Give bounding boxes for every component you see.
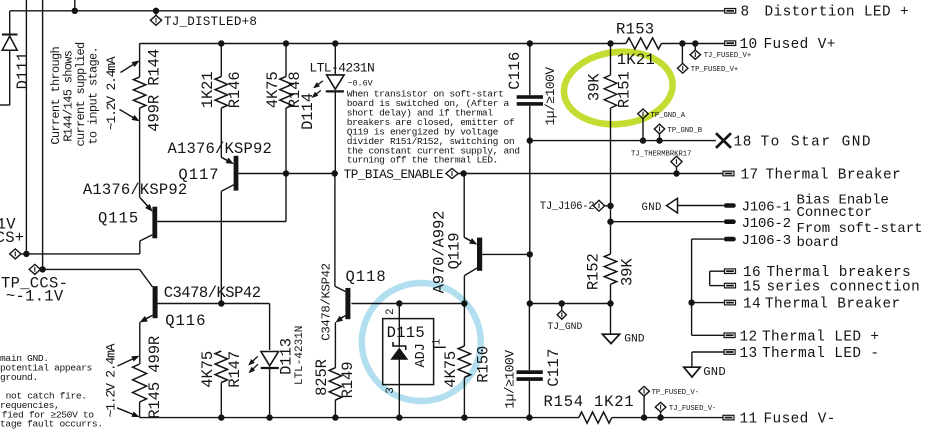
label R151 ref (615, 71, 633, 108)
resistor R144 (133, 44, 145, 198)
svg-text:Fused V-: Fused V- (764, 412, 836, 428)
label TJ_FUSED_V- (669, 405, 716, 413)
wire pin 14 net (692, 302, 725, 304)
resistor R145 (133, 364, 147, 418)
resistor R151 (604, 44, 616, 255)
junction D115 pin3 bottom (396, 414, 402, 420)
label R144 value+ref 499R R144 (146, 49, 164, 132)
test point TP_CCS- diamond (29, 264, 40, 274)
diode D111 (2, 11, 18, 105)
label C116 ref (506, 51, 524, 89)
junction D115 pin2 (396, 300, 402, 306)
label pin 16 Thermal breakers (743, 265, 911, 281)
label R149 ref (339, 362, 357, 399)
svg-text:CS+: CS+ (0, 229, 24, 247)
note paragraph bottom-left cut (0, 353, 103, 430)
svg-text:Thermal LED -: Thermal LED - (762, 346, 879, 362)
label D115 pin 3 (385, 387, 397, 394)
svg-text:GND: GND (642, 202, 662, 214)
label C117 value 1u/>=100V (503, 350, 518, 409)
wire D115 pin1 stub (434, 346, 446, 348)
test point TP_GND_B (654, 124, 664, 134)
svg-text:17: 17 (741, 167, 759, 183)
test point TJ_FUSED_V- (655, 402, 666, 412)
note text current through column1 (49, 47, 63, 145)
svg-text:825R: 825R (313, 359, 331, 396)
svg-text:To Star GND: To Star GND (761, 134, 873, 150)
connector pin 18 star symbol (716, 133, 731, 148)
junction TJ_DISTLED+8 stem (153, 8, 159, 16)
label TJ_J106-2 (540, 201, 595, 213)
junction C116/C117 mid (527, 300, 533, 306)
wire R152 to gnd (610, 304, 612, 335)
label Q118 ref (346, 268, 387, 286)
label R147 ref (226, 351, 244, 388)
ground symbol below R152 (602, 334, 619, 343)
svg-text:R146: R146 (226, 71, 244, 108)
label Q118 type C3478/KSP42 rotated (319, 263, 333, 340)
test point TP_FUSED_V+ (678, 63, 688, 73)
label C117 ref (545, 348, 563, 386)
label Bias Enable (797, 193, 889, 209)
label R153 value 1K21 (617, 51, 655, 69)
svg-text:~0.6V: ~0.6V (348, 78, 373, 88)
svg-text:D114: D114 (299, 93, 317, 130)
label J106-3 (742, 233, 791, 249)
svg-text:J106-1: J106-1 (742, 199, 791, 215)
svg-text:1µ/≥100V: 1µ/≥100V (543, 67, 558, 126)
label D115 pin 1 (431, 338, 443, 345)
device D115 symbol (391, 319, 407, 385)
junction TJ_GND stem (559, 300, 565, 310)
svg-text:~1.2V 2.4mA: ~1.2V 2.4mA (104, 56, 119, 130)
led D114 arrow2 (312, 90, 321, 97)
label TP_GND_A (651, 112, 686, 120)
svg-text:TP_FUSED_V+: TP_FUSED_V+ (691, 66, 738, 74)
label pin 14 Thermal Breaker (743, 297, 901, 313)
junction R151/R153 (607, 40, 613, 46)
junction D114 cathode / Q118 collector (332, 170, 338, 176)
svg-text:Distortion LED +: Distortion LED + (765, 5, 910, 21)
label TJ_FUSED_V+ (704, 52, 751, 60)
transistor Q119 (464, 174, 482, 304)
led D113 arrow2 (249, 364, 258, 373)
label Q117 ref (178, 166, 219, 184)
svg-text:4K75: 4K75 (442, 351, 460, 388)
svg-text:Q118: Q118 (346, 268, 387, 286)
svg-text:499R R144: 499R R144 (146, 49, 164, 132)
svg-text:39K: 39K (585, 73, 603, 101)
svg-text:TJ_GND: TJ_GND (547, 321, 582, 332)
label GND flag (642, 202, 662, 214)
label Q115 ref (98, 209, 139, 227)
junction TP_GND_B stem (656, 134, 662, 144)
note arrow upper R145 (118, 356, 140, 366)
label R152 value 39K (618, 258, 636, 286)
capacitor C116 (517, 44, 543, 304)
junction TJ_J106-2 stem (605, 203, 614, 209)
label Q119 type A970/A992 (430, 211, 448, 294)
connector pin 15 (725, 283, 736, 288)
label R146 ref (226, 71, 244, 108)
junction R147 bottom (218, 414, 224, 420)
highlight blue circle around D115 (362, 283, 481, 401)
connector pin J106-2 (724, 219, 736, 224)
wire Q115 base (157, 174, 286, 222)
svg-text:Thermal LED +: Thermal LED + (762, 330, 879, 346)
svg-text:14: 14 (743, 297, 761, 313)
label R154 ref+value R154 1K21 (544, 393, 635, 411)
label D113 type LTL-4231N (294, 326, 306, 385)
resistor R147 (215, 351, 227, 418)
junction TJ_FUSED_V- stem (657, 412, 663, 421)
label R148 value 4K75 (264, 71, 282, 108)
label TJ_DISTLED+8 (164, 15, 257, 29)
note ~1.2V 2.4mA (R145) (103, 343, 118, 417)
junction Q119 emitter (460, 170, 466, 176)
junction Q115 base riser (283, 170, 289, 176)
wire pin 13 net (692, 352, 724, 367)
svg-text:GND: GND (703, 365, 726, 379)
svg-text:C116: C116 (506, 51, 524, 89)
junction C116 bottom / star gnd wire (527, 137, 533, 143)
junction TJ_THERMBRKR17 stem (673, 167, 679, 177)
svg-text:D115: D115 (387, 324, 425, 342)
label R149 value 825R (313, 359, 331, 396)
capacitor C117 (517, 304, 543, 418)
note arrow lower R145 (117, 408, 139, 417)
svg-text:to input stage.: to input stage. (86, 47, 100, 145)
svg-text:13: 13 (740, 346, 758, 362)
junction on top rail (72, 8, 78, 14)
label TP_GND_B (668, 127, 703, 135)
svg-text:TJ_FUSED_V+: TJ_FUSED_V+ (704, 52, 751, 60)
svg-text:R152: R152 (585, 253, 603, 290)
label ~-1.1V (6, 288, 64, 306)
svg-text:4K75: 4K75 (264, 71, 282, 108)
label Q116 ref (165, 312, 206, 330)
junction Q119 base / C116 net (527, 251, 533, 257)
svg-text:LTL-4231N: LTL-4231N (309, 61, 374, 76)
wire R150 branch (463, 304, 465, 347)
connector pin 16 (725, 269, 736, 274)
note ~1.2V 2.4mA (R144) (104, 56, 119, 130)
connector pin 17 (723, 171, 734, 176)
test point TJ_FUSED_V+ (690, 50, 700, 59)
wire pin16-15 loop (710, 271, 725, 285)
wire Q119 base (482, 253, 530, 255)
led D113 arrow1 (249, 356, 258, 365)
label R153 ref (616, 21, 654, 39)
label cut TP_CCS+ (0, 229, 24, 247)
junction R152 bottom (607, 300, 613, 306)
label D111 (14, 52, 32, 90)
wire top rail Distortion LED+ net (10, 10, 725, 12)
svg-text:ground.: ground. (0, 372, 38, 383)
junction R148 top (283, 40, 289, 46)
wire J106-2 net (611, 221, 724, 223)
junction R149 bottom (332, 414, 338, 420)
note text current through column3 (74, 42, 88, 147)
label TP_CCS- (1, 275, 68, 293)
test point TJ_THERMBRKR17 (671, 156, 682, 167)
wire J106-3 net (692, 239, 724, 335)
label R147 value 4K75 (199, 351, 217, 388)
svg-text:J106-3: J106-3 (742, 233, 791, 249)
transistor Q115 (140, 197, 158, 254)
svg-text:board: board (797, 235, 839, 251)
junction D113 cathode bottom (266, 414, 272, 420)
wire vertical TP_CCS- net (42, 0, 44, 269)
junction TP_CCS- vertical (39, 266, 45, 272)
wire R152 bottom node (530, 303, 611, 305)
wire to star GND net (530, 140, 716, 142)
gnd flag J106-1 (667, 198, 678, 213)
wire TP_CCS- net (40, 268, 139, 270)
label pin 12 Thermal LED + (740, 330, 880, 346)
wire TP_CCS+ net (21, 253, 140, 255)
label R145 value+ref R145 499R (146, 336, 164, 419)
label Q119 ref (446, 233, 464, 270)
label GND pin13 (703, 365, 726, 379)
connector pin 10 (725, 41, 736, 46)
test point TJ_J106-2 (593, 200, 604, 211)
note paragraph when-transistor (347, 89, 520, 166)
svg-text:A1376/KSP92: A1376/KSP92 (168, 140, 273, 158)
junction TJ_FUSED_V+ stem (692, 40, 698, 50)
connector pin 11 (723, 415, 734, 420)
wire gnd flag to J106-1 (678, 205, 724, 207)
label pin 11 Fused V- (740, 412, 836, 428)
svg-text:GND: GND (624, 333, 645, 345)
svg-text:12: 12 (740, 330, 758, 346)
resistor R149 (329, 368, 341, 418)
connector pin 8 (725, 9, 736, 14)
label TJ_THERMBRKR17 (631, 150, 691, 158)
led D114 arrow1 (314, 81, 323, 88)
wire pin 12 net (692, 334, 725, 336)
wire Q116 base (158, 303, 222, 305)
svg-text:TJ_THERMBRKR17: TJ_THERMBRKR17 (631, 150, 691, 158)
svg-text:Fused V+: Fused V+ (764, 37, 836, 53)
svg-text:10: 10 (740, 37, 758, 53)
svg-text:A1376/KSP92: A1376/KSP92 (83, 181, 188, 199)
svg-text:Thermal Breaker: Thermal Breaker (766, 167, 902, 183)
svg-text:J106-2: J106-2 (742, 216, 791, 232)
test point TP_FUSED_V- (639, 386, 650, 396)
label board (797, 235, 839, 251)
svg-text:R154 1K21: R154 1K21 (544, 393, 635, 411)
label pin 17 Thermal Breaker (741, 167, 902, 183)
device D115 box (383, 319, 434, 385)
label J106-2 (742, 216, 791, 232)
svg-text:turning off the thermal LED.: turning off the thermal LED. (347, 155, 498, 166)
label TP_FUSED_V+ (691, 66, 738, 74)
svg-text:Q115: Q115 (98, 209, 139, 227)
junction Q119 collector node (461, 300, 467, 306)
svg-text:C3478/KSP42: C3478/KSP42 (319, 263, 333, 340)
svg-text:1K21: 1K21 (199, 71, 217, 108)
note text current through column2 (61, 50, 75, 142)
svg-text:C117: C117 (545, 348, 563, 386)
svg-text:4K75: 4K75 (199, 351, 217, 388)
label TP_FUSED_V- (652, 389, 699, 397)
svg-text:TP_FUSED_V-: TP_FUSED_V- (652, 389, 699, 397)
label Connector (797, 205, 873, 221)
svg-text:39K: 39K (618, 258, 636, 286)
led D114 (326, 44, 344, 174)
junction Q116 base / R147 (218, 300, 224, 306)
svg-text:~1.2V 2.4mA: ~1.2V 2.4mA (103, 343, 118, 417)
resistor R148 (280, 44, 292, 174)
label D115 ADJ (414, 343, 429, 367)
junction TP_FUSED_V+ stem (679, 40, 685, 63)
wire vertical TP_CCS+ net (25, 0, 27, 254)
resistor R146 (215, 44, 227, 158)
connector pin J106-1 (724, 203, 736, 208)
label pin 15 series connection (743, 280, 920, 296)
resistor R153 (626, 38, 661, 49)
label J106-1 (742, 199, 791, 215)
wire D111 to left edge (0, 104, 10, 106)
label pin 18 To Star GND (734, 134, 873, 150)
svg-text:TJ_FUSED_V-: TJ_FUSED_V- (669, 405, 716, 413)
wire bottom rail Fused V- net (140, 417, 723, 419)
transistor Q118 (335, 174, 351, 368)
label TP_BIAS_ENABLE (344, 168, 444, 182)
svg-text:TJ_J106-2: TJ_J106-2 (540, 201, 595, 213)
label GND below R152 (624, 333, 645, 345)
label From soft-start (797, 221, 923, 237)
label R150 ref (475, 346, 493, 383)
note arrow upper ~1.2V (121, 61, 140, 73)
label Q117 type A1376/KSP92 (168, 140, 273, 158)
label TJ_GND (547, 321, 582, 332)
label D114 ref (299, 93, 317, 130)
svg-text:R145 499R: R145 499R (146, 336, 164, 419)
junction C117 bottom (526, 414, 532, 420)
wire main rail V+ net (140, 43, 725, 45)
label C116 value 1u/>=100V (543, 67, 558, 126)
svg-text:R147: R147 (226, 351, 244, 388)
junction R150 bottom (461, 414, 467, 420)
wire Q118 base to D115/R150 (351, 303, 464, 305)
junction R152 top / J106-2 tap (607, 219, 613, 225)
test point TJ_DISTLED+8 (150, 15, 161, 25)
svg-text:LTL-4231N: LTL-4231N (294, 326, 306, 385)
svg-text:series connection: series connection (767, 280, 921, 296)
svg-text:Thermal Breaker: Thermal Breaker (765, 297, 901, 313)
svg-text:D113: D113 (278, 338, 296, 375)
label D113 ref (278, 338, 296, 375)
connector pin 12 (724, 333, 735, 338)
label D114 voltage ~0.6V (348, 78, 373, 88)
svg-text:TJ_DISTLED+8: TJ_DISTLED+8 (164, 15, 257, 29)
junction C116 top (527, 40, 533, 46)
label pin 13 Thermal LED - (740, 346, 880, 362)
svg-text:8: 8 (741, 5, 750, 21)
svg-text:TP_BIAS_ENABLE: TP_BIAS_ENABLE (344, 168, 444, 182)
test point TJ_GND (557, 310, 566, 319)
ground symbol pin 13 (684, 367, 700, 377)
connector pin J106-3 (724, 237, 736, 242)
label Q116 type C3478/KSP42 (164, 284, 261, 302)
label pin 8 Distortion LED + (741, 5, 910, 21)
svg-text:1µ/≥100V: 1µ/≥100V (503, 350, 518, 409)
junction J106-3 / pin14 (688, 299, 694, 305)
label D115 ref (387, 324, 425, 342)
svg-text:R153: R153 (616, 21, 654, 39)
label D114 type LTL-4231N (309, 61, 374, 76)
label R146 value 1K21 (199, 71, 217, 108)
svg-text:R151: R151 (615, 71, 633, 108)
resistor R150 (458, 346, 470, 418)
label R150 value 4K75 (442, 351, 460, 388)
note text current through column4 (86, 47, 100, 145)
svg-text:1: 1 (431, 338, 443, 345)
wire base node to D113 (221, 304, 269, 351)
label cut ~x.1V (0, 216, 16, 234)
junction D114 anode (332, 40, 338, 46)
svg-text:D111: D111 (14, 52, 32, 90)
junction TP_CCS+ vertical (23, 251, 29, 257)
svg-text:ADJ: ADJ (414, 343, 429, 367)
svg-text:TP_GND_B: TP_GND_B (668, 127, 703, 135)
led D113 (261, 352, 279, 418)
transistor Q117 (221, 156, 238, 304)
junction R146 top (218, 40, 224, 46)
wire Q117 base to TP_BIAS net (238, 173, 334, 175)
wire TP_BIAS_ENABLE net (458, 173, 723, 175)
label R151 value 39K (585, 73, 603, 101)
label pin 10 Fused V+ (740, 37, 836, 53)
svg-text:C3478/KSP42: C3478/KSP42 (164, 284, 261, 302)
highlight green ellipse around R151 (560, 47, 676, 130)
note arrow lower ~1.2V (120, 110, 140, 122)
wire D115 pin2 lead (398, 304, 400, 319)
connector pin 14 (725, 300, 736, 305)
wire D115 pin3 lead (398, 385, 400, 418)
svg-text:Q116: Q116 (165, 312, 206, 330)
svg-text:11: 11 (740, 412, 758, 428)
junction TP_GND_A stem (640, 119, 646, 144)
resistor R152 (604, 254, 616, 304)
label R152 ref (585, 253, 603, 290)
label D115 pin 2 (385, 308, 397, 315)
test point TP_GND_A (638, 109, 648, 119)
wire stub to off-sheet (74, 0, 76, 11)
test point TP_BIAS_ENABLE (446, 169, 458, 179)
junction TP_FUSED_V- stem (641, 396, 647, 421)
svg-text:Q119: Q119 (446, 233, 464, 270)
label Q115 type A1376/KSP92 (83, 181, 188, 199)
connector pin 13 (724, 350, 735, 355)
svg-text:~-1.1V: ~-1.1V (6, 288, 64, 306)
transistor Q116 (140, 269, 158, 364)
test point TP_CCS+ diamond (10, 249, 21, 259)
svg-text:Connector: Connector (797, 205, 873, 221)
svg-text:tage fault occurrs.: tage fault occurrs. (0, 419, 103, 430)
label R148 ref (286, 71, 304, 108)
svg-text:18: 18 (734, 134, 752, 150)
resistor R154 (579, 412, 612, 423)
svg-text:R149: R149 (339, 362, 357, 399)
svg-text:15: 15 (743, 280, 761, 296)
svg-text:2: 2 (385, 308, 397, 315)
